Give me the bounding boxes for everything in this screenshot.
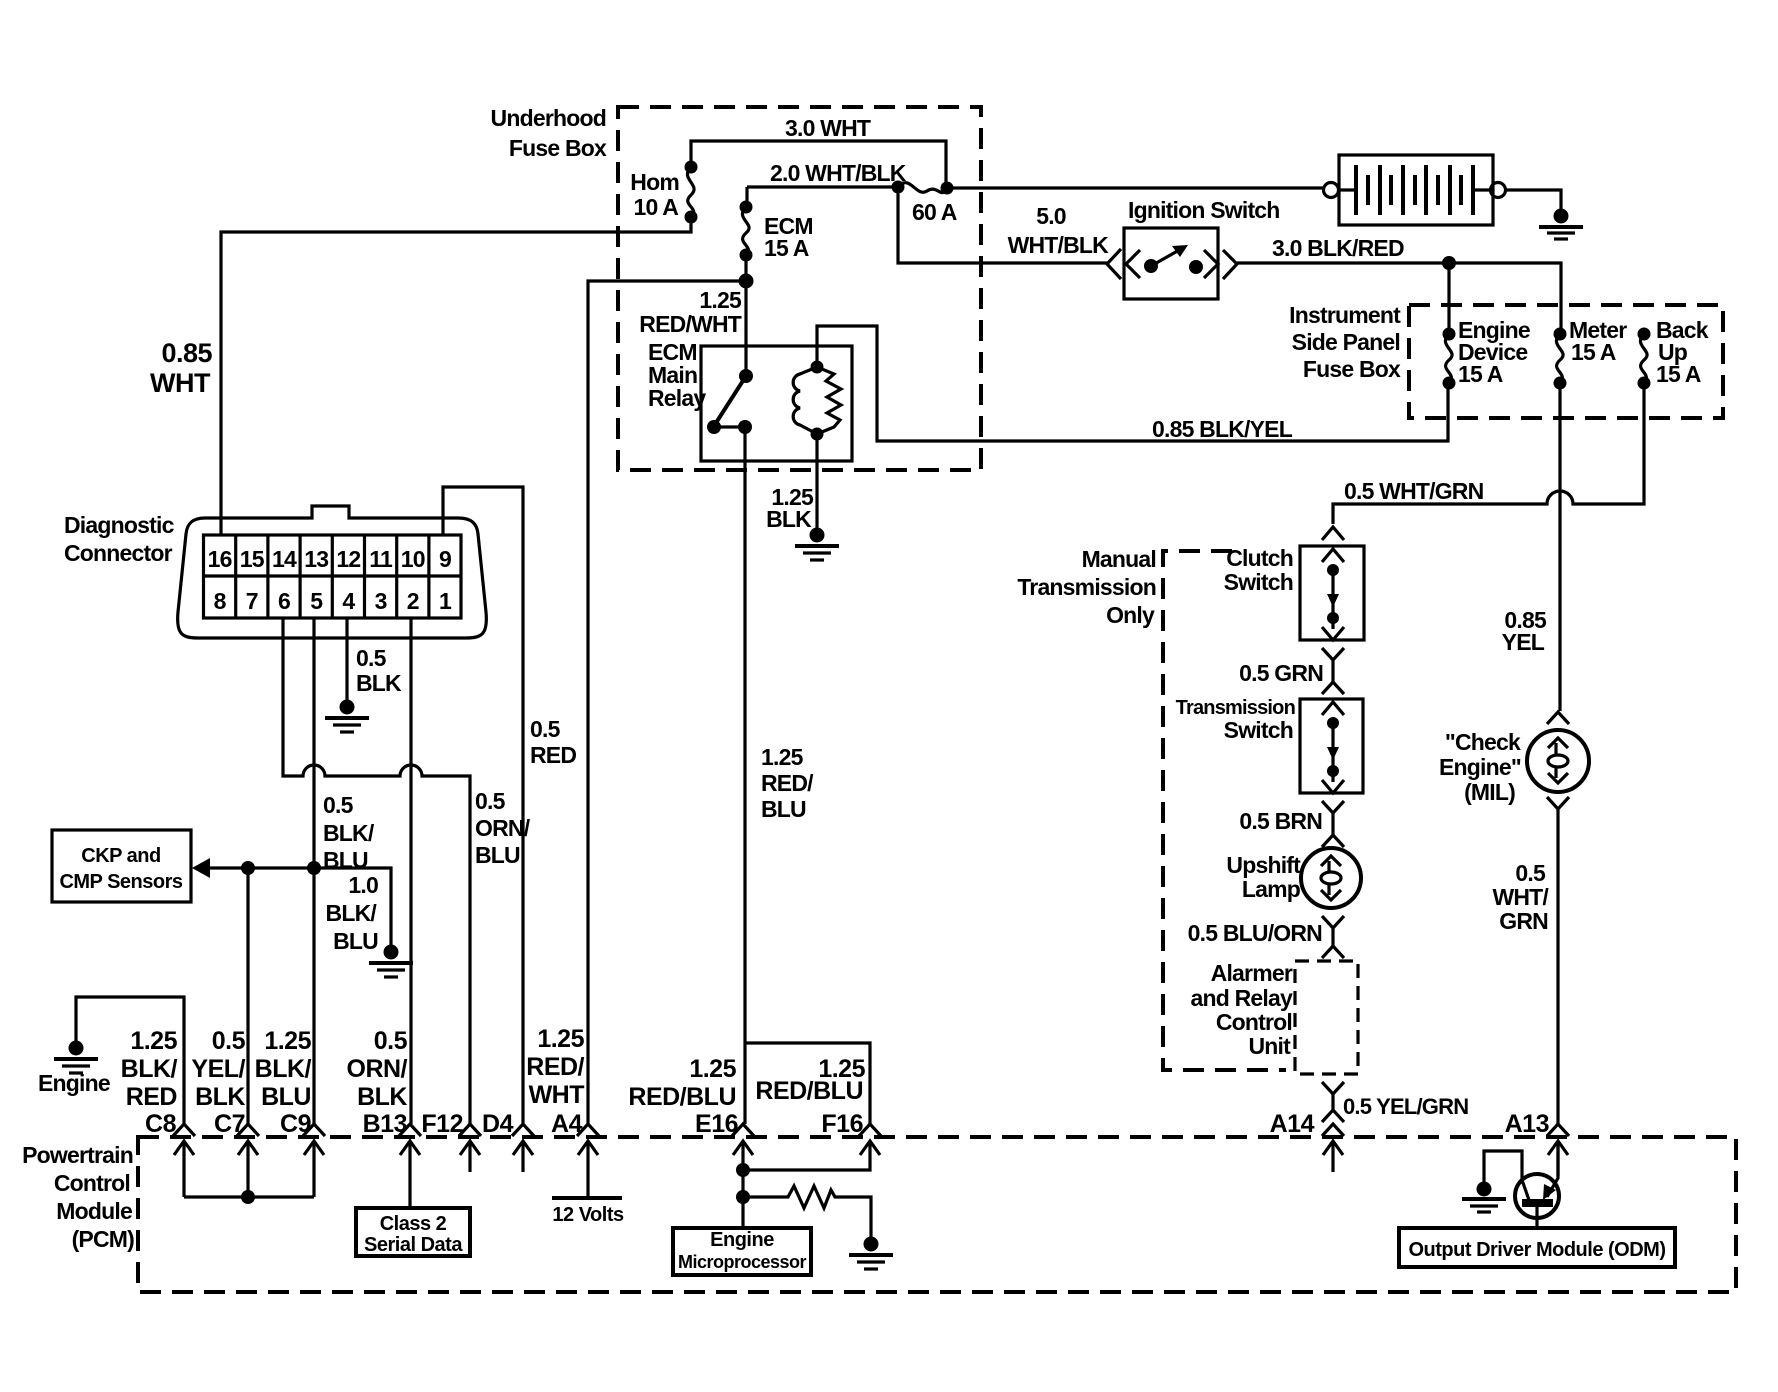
label 0.5 RED bbox=[530, 716, 576, 768]
wire pin9 to D4 0.5 RED bbox=[443, 487, 523, 1124]
svg-text:13: 13 bbox=[304, 546, 328, 572]
instrument fuse box dashed outline bbox=[1409, 305, 1723, 418]
svg-text:Manual: Manual bbox=[1082, 546, 1156, 572]
clutch switch bbox=[1224, 545, 1364, 640]
svg-text:CMP Sensors: CMP Sensors bbox=[59, 871, 182, 893]
wire horn fuse to 0.85 WHT bbox=[221, 217, 691, 535]
svg-text:BLK/: BLK/ bbox=[326, 900, 378, 926]
svg-text:0.5: 0.5 bbox=[323, 792, 354, 818]
label 1.25 RED/BLU E16 bbox=[628, 1055, 738, 1138]
svg-text:10 A: 10 A bbox=[633, 194, 678, 220]
svg-text:RED: RED bbox=[530, 742, 576, 768]
PCM entry C7 bbox=[237, 1124, 259, 1197]
svg-text:Class 2: Class 2 bbox=[380, 1213, 447, 1235]
svg-text:Unit: Unit bbox=[1248, 1033, 1291, 1059]
diagnostic connector outline bbox=[178, 506, 487, 638]
label 1.25 RED/WHT A4 bbox=[526, 1025, 584, 1138]
svg-text:(MIL): (MIL) bbox=[1464, 779, 1515, 805]
svg-text:Switch: Switch bbox=[1224, 717, 1293, 743]
relay switch bbox=[707, 281, 753, 434]
fuse Back Up 15A bbox=[1638, 317, 1709, 390]
ground (relay coil) bbox=[795, 528, 839, 561]
wire 1.25 BLK to ground bbox=[766, 434, 817, 532]
ground (pin 4) bbox=[325, 700, 369, 733]
connector pair 0.5 GRN bbox=[1239, 648, 1344, 694]
svg-text:15 A: 15 A bbox=[764, 235, 809, 261]
svg-text:RED/: RED/ bbox=[761, 770, 814, 796]
label 1.25 BLK/RED C8 bbox=[121, 1027, 178, 1138]
svg-text:YEL/: YEL/ bbox=[191, 1055, 245, 1083]
wire pin6 to F12 0.5 ORN/BLU with hops bbox=[283, 618, 470, 1124]
PCM entry A4 / 12 volts bbox=[552, 1124, 624, 1226]
svg-text:15 A: 15 A bbox=[1571, 339, 1616, 365]
wire battery to ground bbox=[1505, 190, 1561, 209]
node A14 bbox=[1270, 1110, 1344, 1172]
svg-text:D4: D4 bbox=[482, 1110, 514, 1138]
ground (engine) bbox=[38, 1041, 110, 1097]
svg-text:Transmission: Transmission bbox=[1176, 697, 1295, 719]
svg-text:WHT: WHT bbox=[150, 368, 211, 398]
ground (1.0 BLK/BLU) bbox=[369, 945, 413, 978]
svg-text:Hom: Hom bbox=[630, 169, 679, 195]
svg-text:0.5: 0.5 bbox=[374, 1027, 408, 1055]
resistor (engine microprocessor pull-up) bbox=[743, 1186, 871, 1237]
svg-text:Output Driver Module (ODM): Output Driver Module (ODM) bbox=[1409, 1239, 1666, 1261]
svg-text:12 Volts: 12 Volts bbox=[552, 1204, 624, 1226]
svg-text:16: 16 bbox=[208, 546, 232, 572]
label 3.0 BLK/RED bbox=[1272, 235, 1404, 261]
diagnostic connector pin grid bbox=[204, 535, 462, 618]
lamp Upshift Lamp bbox=[1226, 848, 1361, 908]
svg-text:14: 14 bbox=[272, 546, 297, 572]
svg-text:Upshift: Upshift bbox=[1226, 852, 1301, 878]
svg-text:and Relay: and Relay bbox=[1191, 985, 1293, 1011]
underhood fuse box dashed outline bbox=[618, 107, 981, 470]
svg-text:YEL: YEL bbox=[1502, 629, 1545, 655]
pin numbers bbox=[208, 546, 452, 614]
wire 0.5 WHT/GRN to A13 bbox=[1492, 809, 1558, 1124]
svg-text:Only: Only bbox=[1106, 602, 1155, 628]
svg-text:Engine: Engine bbox=[38, 1070, 110, 1096]
svg-text:RED/BLU: RED/BLU bbox=[628, 1083, 736, 1111]
svg-text:Diagnostic: Diagnostic bbox=[64, 512, 175, 538]
label 0.5 WHT/GRN bbox=[1344, 478, 1484, 504]
Class 2 Serial Data box bbox=[356, 1208, 470, 1256]
transistor (ODM driver) bbox=[1515, 1141, 1559, 1228]
PCM entry B13 bbox=[399, 1124, 421, 1208]
wire F16 branch bbox=[745, 1043, 870, 1124]
svg-text:Underhood: Underhood bbox=[491, 105, 606, 131]
connector at clutch switch top bbox=[1322, 527, 1344, 540]
PCM internal bus C8-C9 bbox=[184, 1190, 314, 1204]
svg-text:Serial Data: Serial Data bbox=[364, 1234, 463, 1256]
svg-text:Fuse Box: Fuse Box bbox=[1303, 356, 1401, 382]
svg-text:0.85: 0.85 bbox=[161, 338, 212, 368]
svg-text:RED/WHT: RED/WHT bbox=[639, 311, 741, 337]
svg-text:WHT/: WHT/ bbox=[1492, 884, 1549, 910]
svg-text:Module: Module bbox=[56, 1198, 132, 1224]
fuse Engine Device 15A bbox=[1443, 317, 1530, 390]
svg-text:Engine": Engine" bbox=[1439, 754, 1521, 780]
svg-text:C8: C8 bbox=[145, 1110, 177, 1138]
PCM entry F16 bbox=[743, 1124, 881, 1170]
svg-text:BLK/: BLK/ bbox=[255, 1055, 312, 1083]
svg-text:RED/BLU: RED/BLU bbox=[755, 1077, 863, 1105]
label 0.5 BLK/BLU bbox=[323, 792, 375, 873]
svg-text:BLK: BLK bbox=[357, 1083, 407, 1111]
svg-text:Engine: Engine bbox=[710, 1229, 774, 1251]
PCM entry F12 bbox=[459, 1124, 481, 1172]
label 1.25 BLK/BLU C9 bbox=[255, 1027, 312, 1138]
svg-text:15: 15 bbox=[240, 546, 265, 572]
wire 0.85 YEL bbox=[1502, 383, 1560, 711]
svg-text:3: 3 bbox=[375, 588, 387, 614]
svg-text:BLK/: BLK/ bbox=[323, 820, 375, 846]
svg-text:ORN/: ORN/ bbox=[347, 1055, 408, 1083]
svg-text:0.5 GRN: 0.5 GRN bbox=[1239, 660, 1323, 686]
svg-text:F16: F16 bbox=[821, 1110, 863, 1138]
svg-text:Ignition Switch: Ignition Switch bbox=[1128, 197, 1280, 223]
fuse 60A bbox=[892, 181, 957, 226]
wire 3.0 BLK/RED bbox=[1237, 256, 1561, 334]
relay ECM Main Relay box bbox=[648, 339, 852, 461]
label 3.0 WHT bbox=[785, 115, 871, 141]
svg-text:15 A: 15 A bbox=[1458, 361, 1503, 387]
svg-text:0.5: 0.5 bbox=[530, 716, 561, 742]
svg-text:WHT/BLK: WHT/BLK bbox=[1008, 232, 1110, 258]
svg-text:CKP and: CKP and bbox=[81, 845, 160, 867]
svg-text:Transmission: Transmission bbox=[1017, 574, 1156, 600]
instrument fuse box label bbox=[1289, 302, 1401, 382]
node F12 bbox=[421, 1110, 463, 1138]
label 5.0 WHT/BLK bbox=[1008, 203, 1110, 258]
battery / fusible link bbox=[1324, 155, 1506, 225]
wire 0.5 WHT/GRN with hop bbox=[1333, 383, 1644, 524]
connector pair 0.5 YEL/GRN bbox=[1322, 1082, 1468, 1122]
svg-text:0.5 BLU/ORN: 0.5 BLU/ORN bbox=[1188, 920, 1323, 946]
wire top feed to battery bbox=[947, 186, 1324, 189]
svg-text:0.5: 0.5 bbox=[212, 1027, 246, 1055]
underhood fuse box label bbox=[491, 105, 607, 161]
transmission switch bbox=[1176, 697, 1363, 793]
node D4 bbox=[482, 1110, 514, 1138]
label 0.5 ORN/BLK B13 bbox=[347, 1027, 408, 1138]
svg-text:BLU: BLU bbox=[761, 796, 806, 822]
svg-text:7: 7 bbox=[246, 588, 258, 614]
svg-text:BLU: BLU bbox=[333, 928, 378, 954]
svg-text:6: 6 bbox=[278, 588, 290, 614]
fuse Horn 10A bbox=[630, 161, 697, 224]
arrow to CKP bbox=[192, 858, 391, 945]
svg-text:3.0 WHT: 3.0 WHT bbox=[785, 115, 871, 141]
wire 3.0 WHT bbox=[691, 141, 946, 185]
svg-text:RED: RED bbox=[126, 1083, 177, 1111]
svg-text:60 A: 60 A bbox=[912, 199, 957, 225]
svg-text:0.5 YEL/GRN: 0.5 YEL/GRN bbox=[1343, 1094, 1468, 1119]
svg-text:0.5: 0.5 bbox=[475, 788, 506, 814]
svg-text:Relay: Relay bbox=[648, 385, 706, 411]
svg-text:0.5 WHT/GRN: 0.5 WHT/GRN bbox=[1344, 478, 1484, 504]
relay coil bbox=[793, 361, 841, 441]
diagnostic connector label bbox=[64, 512, 175, 566]
wire C7 bbox=[246, 868, 249, 1124]
manual transmission only label bbox=[1017, 546, 1156, 628]
svg-text:RED/: RED/ bbox=[526, 1053, 584, 1081]
CKP and CMP sensors box bbox=[52, 830, 191, 902]
svg-text:Fuse Box: Fuse Box bbox=[509, 135, 607, 161]
svg-text:0.85 BLK/YEL: 0.85 BLK/YEL bbox=[1152, 416, 1293, 442]
svg-text:1.25: 1.25 bbox=[537, 1025, 584, 1053]
svg-text:0.5: 0.5 bbox=[1515, 860, 1546, 886]
svg-text:1.25: 1.25 bbox=[689, 1055, 736, 1083]
ground (resistor) bbox=[849, 1237, 893, 1270]
svg-text:Powertrain: Powertrain bbox=[22, 1142, 133, 1168]
label 1.0 BLK/BLU bbox=[326, 872, 379, 954]
fuse Meter 15A bbox=[1554, 317, 1628, 390]
manual transmission only dashed outline bbox=[1163, 551, 1286, 1070]
svg-text:1.25: 1.25 bbox=[761, 744, 804, 770]
svg-text:BLK/: BLK/ bbox=[121, 1055, 178, 1083]
PCM entry C8 bbox=[173, 1124, 195, 1197]
ground (ODM) bbox=[1462, 1182, 1506, 1213]
svg-text:WHT: WHT bbox=[529, 1081, 585, 1109]
svg-text:3.0 BLK/RED: 3.0 BLK/RED bbox=[1272, 235, 1404, 261]
svg-text:F12: F12 bbox=[421, 1110, 463, 1138]
wire junction to A4 (1.25 RED/WHT) bbox=[588, 281, 746, 1124]
svg-text:(PCM): (PCM) bbox=[72, 1226, 135, 1252]
svg-text:1: 1 bbox=[439, 588, 452, 614]
wire 5.0 WHT/BLK bbox=[898, 187, 1108, 263]
svg-text:2.0 WHT/BLK: 2.0 WHT/BLK bbox=[770, 160, 907, 186]
svg-text:BLK: BLK bbox=[356, 670, 402, 696]
wire E16 1.25 RED/BLU from relay bbox=[743, 427, 746, 1124]
svg-text:Instrument: Instrument bbox=[1289, 302, 1401, 328]
output driver module box bbox=[1399, 1228, 1675, 1267]
PCM entry D4 bbox=[512, 1124, 534, 1172]
wire pin4 0.5 BLK to ground bbox=[347, 618, 402, 700]
PCM dashed outline bbox=[138, 1137, 1736, 1292]
svg-text:BLU: BLU bbox=[261, 1083, 311, 1111]
svg-text:1.25: 1.25 bbox=[130, 1027, 177, 1055]
label 1.25 RED/BLU (E16 mid) bbox=[761, 744, 814, 822]
svg-text:15 A: 15 A bbox=[1656, 361, 1701, 387]
svg-text:Alarmer: Alarmer bbox=[1211, 960, 1293, 986]
wire transistor emitter to ground bbox=[1484, 1151, 1522, 1182]
wire C8 engine ground bbox=[76, 997, 184, 1124]
label 1.25 RED/BLU F16 bbox=[755, 1055, 865, 1138]
wire ECM fuse to junction bbox=[739, 255, 754, 289]
wire pin5 to C9 bbox=[312, 618, 315, 1124]
svg-text:Clutch: Clutch bbox=[1226, 545, 1293, 571]
svg-text:11: 11 bbox=[369, 546, 393, 572]
PCM entry E16 bbox=[732, 1124, 754, 1228]
svg-text:0.5: 0.5 bbox=[356, 645, 387, 671]
PCM label bbox=[22, 1142, 134, 1252]
svg-text:Control: Control bbox=[54, 1170, 130, 1196]
svg-text:Switch: Switch bbox=[1224, 569, 1293, 595]
label 0.85 WHT bbox=[150, 338, 212, 398]
svg-text:10: 10 bbox=[401, 546, 425, 572]
node A13 bbox=[1505, 1110, 1569, 1176]
ground (battery) bbox=[1539, 209, 1583, 240]
svg-text:GRN: GRN bbox=[1499, 908, 1548, 934]
svg-text:BLK: BLK bbox=[195, 1083, 245, 1111]
svg-text:Control: Control bbox=[1216, 1009, 1292, 1035]
svg-text:1.0: 1.0 bbox=[348, 872, 378, 898]
svg-text:1.25: 1.25 bbox=[699, 287, 742, 313]
svg-text:E16: E16 bbox=[695, 1110, 738, 1138]
label 1.25 RED/WHT bbox=[639, 287, 742, 337]
svg-text:12: 12 bbox=[336, 546, 360, 572]
svg-text:0.5 BRN: 0.5 BRN bbox=[1239, 808, 1322, 834]
lamp Check Engine MIL bbox=[1439, 712, 1589, 809]
svg-text:Connector: Connector bbox=[64, 540, 173, 566]
svg-text:Microprocessor: Microprocessor bbox=[678, 1252, 807, 1272]
svg-text:Side Panel: Side Panel bbox=[1292, 329, 1400, 355]
svg-text:4: 4 bbox=[342, 588, 355, 614]
wire 2.0 WHT/BLK bbox=[747, 185, 898, 188]
ignition switch bbox=[1107, 197, 1280, 299]
label 0.5 YEL/BLK C7 bbox=[191, 1027, 245, 1138]
connector pair 0.5 BLU/ORN bbox=[1188, 916, 1344, 958]
svg-text:5.0: 5.0 bbox=[1036, 203, 1066, 229]
wire coil to 0.85 BLK/YEL bbox=[817, 326, 1448, 441]
label 0.85 BLK/YEL bbox=[1152, 416, 1293, 442]
svg-text:2: 2 bbox=[407, 588, 419, 614]
label 2.0 WHT/BLK bbox=[770, 160, 907, 186]
PCM entry C9 bbox=[303, 1124, 325, 1197]
svg-text:8: 8 bbox=[214, 588, 227, 614]
engine microprocessor box bbox=[673, 1228, 811, 1275]
svg-text:A14: A14 bbox=[1270, 1110, 1315, 1138]
svg-text:BLU: BLU bbox=[475, 842, 520, 868]
fuse ECM 15A bbox=[740, 187, 813, 262]
svg-text:5: 5 bbox=[310, 588, 323, 614]
svg-text:"Check: "Check bbox=[1445, 729, 1521, 755]
svg-text:9: 9 bbox=[439, 546, 451, 572]
svg-text:Lamp: Lamp bbox=[1242, 876, 1301, 902]
label 0.5 ORN/BLU bbox=[475, 788, 531, 868]
wire pin2 to B13 bbox=[409, 618, 412, 1124]
connector pair 0.5 BRN bbox=[1239, 801, 1344, 847]
svg-text:1.25: 1.25 bbox=[264, 1027, 311, 1055]
svg-text:BLK: BLK bbox=[766, 506, 812, 532]
svg-text:A13: A13 bbox=[1505, 1110, 1549, 1138]
alarmer and relay control unit dashed box bbox=[1191, 960, 1358, 1074]
